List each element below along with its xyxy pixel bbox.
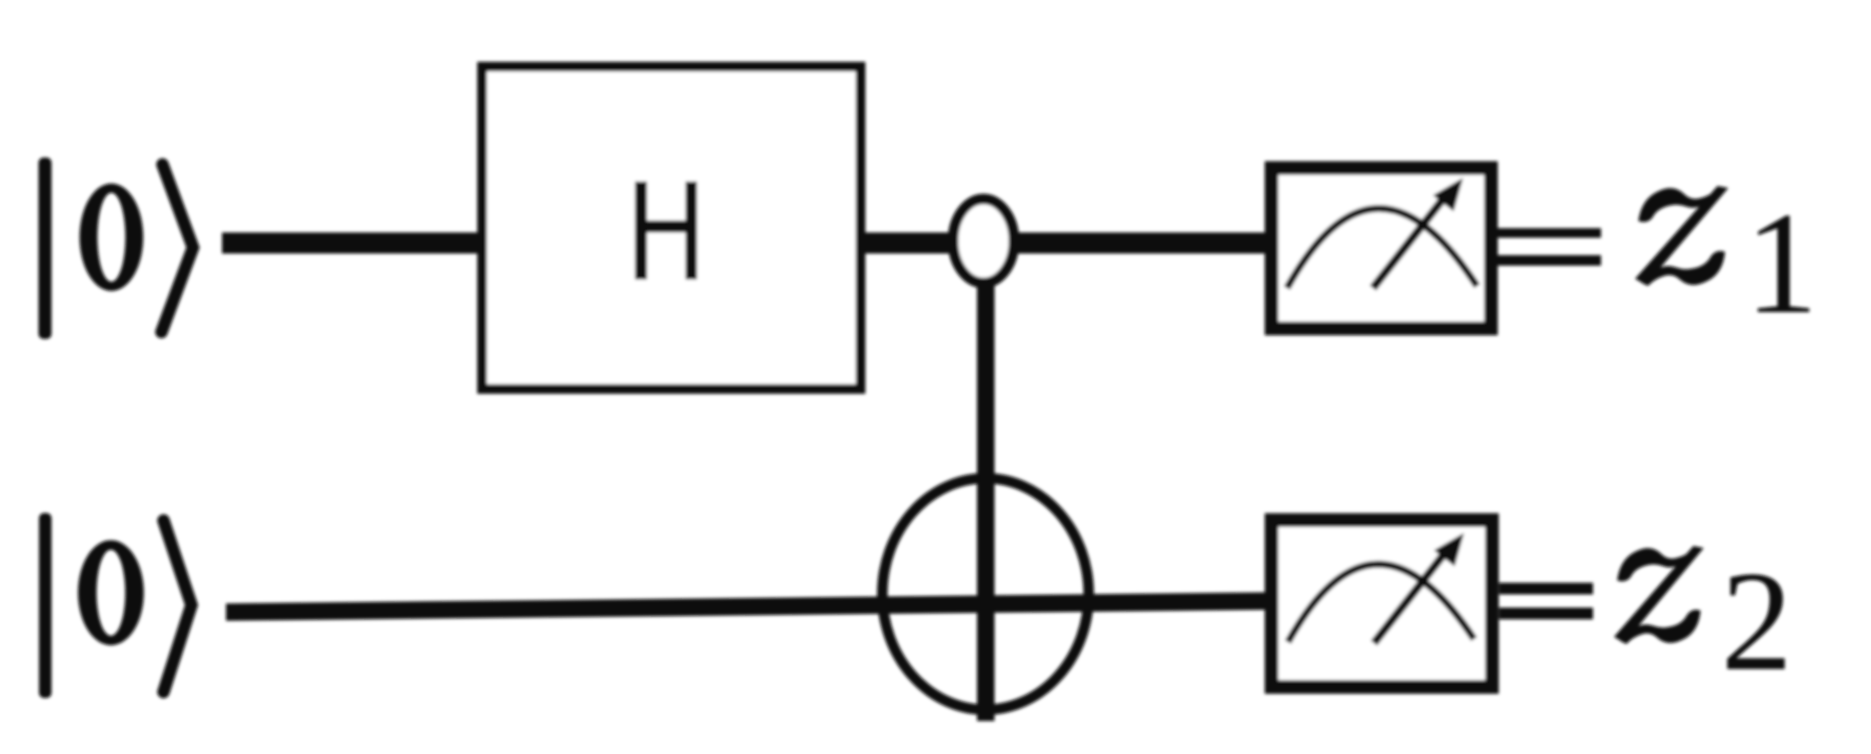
wire q1 [222, 233, 1271, 254]
svg-text:2: 2 [1721, 542, 1793, 700]
meter M1 box [1272, 168, 1492, 329]
ket |0> qubit1 [39, 158, 144, 340]
label z2 (math italic z) [1614, 546, 1704, 644]
svg-text:1: 1 [1745, 182, 1818, 344]
CNOT target circle [882, 478, 1088, 709]
meter M2 box [1272, 520, 1493, 687]
meter M1 arc [1287, 208, 1477, 288]
control node (open circle) [953, 199, 1014, 283]
classical wire c1 (double line) [1497, 228, 1601, 238]
classical wire c2 (double line) [1499, 583, 1593, 595]
meter M1 needle [1373, 194, 1447, 288]
meter M2 needle [1374, 549, 1448, 643]
wire q2 [226, 592, 1272, 621]
wire control vertical [977, 241, 995, 721]
label H [635, 182, 697, 280]
gate H box [482, 67, 861, 389]
meter M2 arc [1288, 564, 1474, 642]
ket |0> qubit2 [39, 513, 144, 698]
label z1 (math italic z) [1635, 186, 1728, 286]
